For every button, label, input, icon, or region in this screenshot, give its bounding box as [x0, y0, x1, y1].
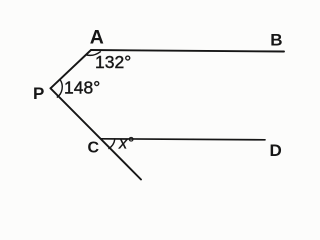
wire: line A to B: [91, 50, 284, 52]
wire: line C to D: [101, 139, 265, 140]
angle arc at P: [57, 79, 62, 97]
svg-text:A: A: [90, 26, 104, 48]
wire: line A to P: [51, 50, 92, 88]
svg-text:P: P: [33, 84, 44, 103]
svg-text:x°: x°: [118, 135, 134, 153]
svg-text:148°: 148°: [64, 78, 100, 98]
wire: line P through C extended: [51, 88, 142, 179]
svg-text:D: D: [270, 141, 282, 160]
angle arc at A: [86, 51, 101, 55]
svg-text:C: C: [88, 139, 100, 156]
svg-text:132°: 132°: [95, 52, 131, 72]
svg-text:B: B: [270, 31, 282, 50]
angle arc at C: [108, 139, 114, 149]
